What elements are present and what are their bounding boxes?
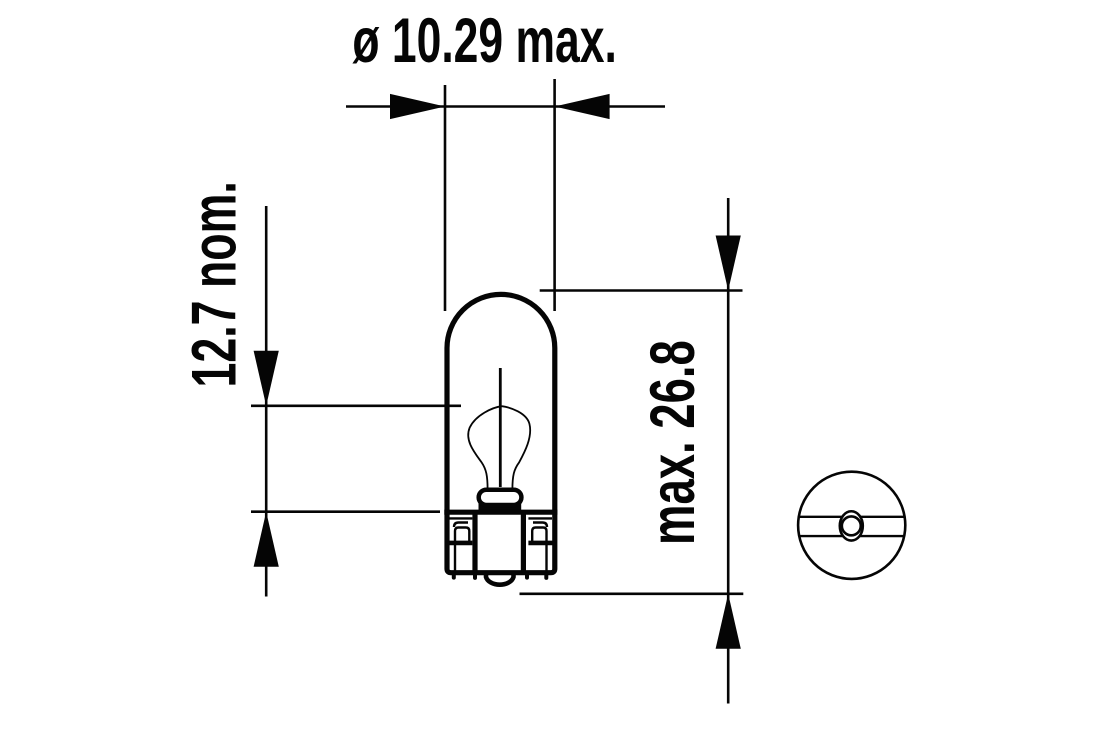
svg-text:12.7 nom.: 12.7 nom. <box>179 181 249 387</box>
svg-text:ø 10.29 max.: ø 10.29 max. <box>352 5 616 75</box>
svg-text:max. 26.8: max. 26.8 <box>637 340 708 545</box>
